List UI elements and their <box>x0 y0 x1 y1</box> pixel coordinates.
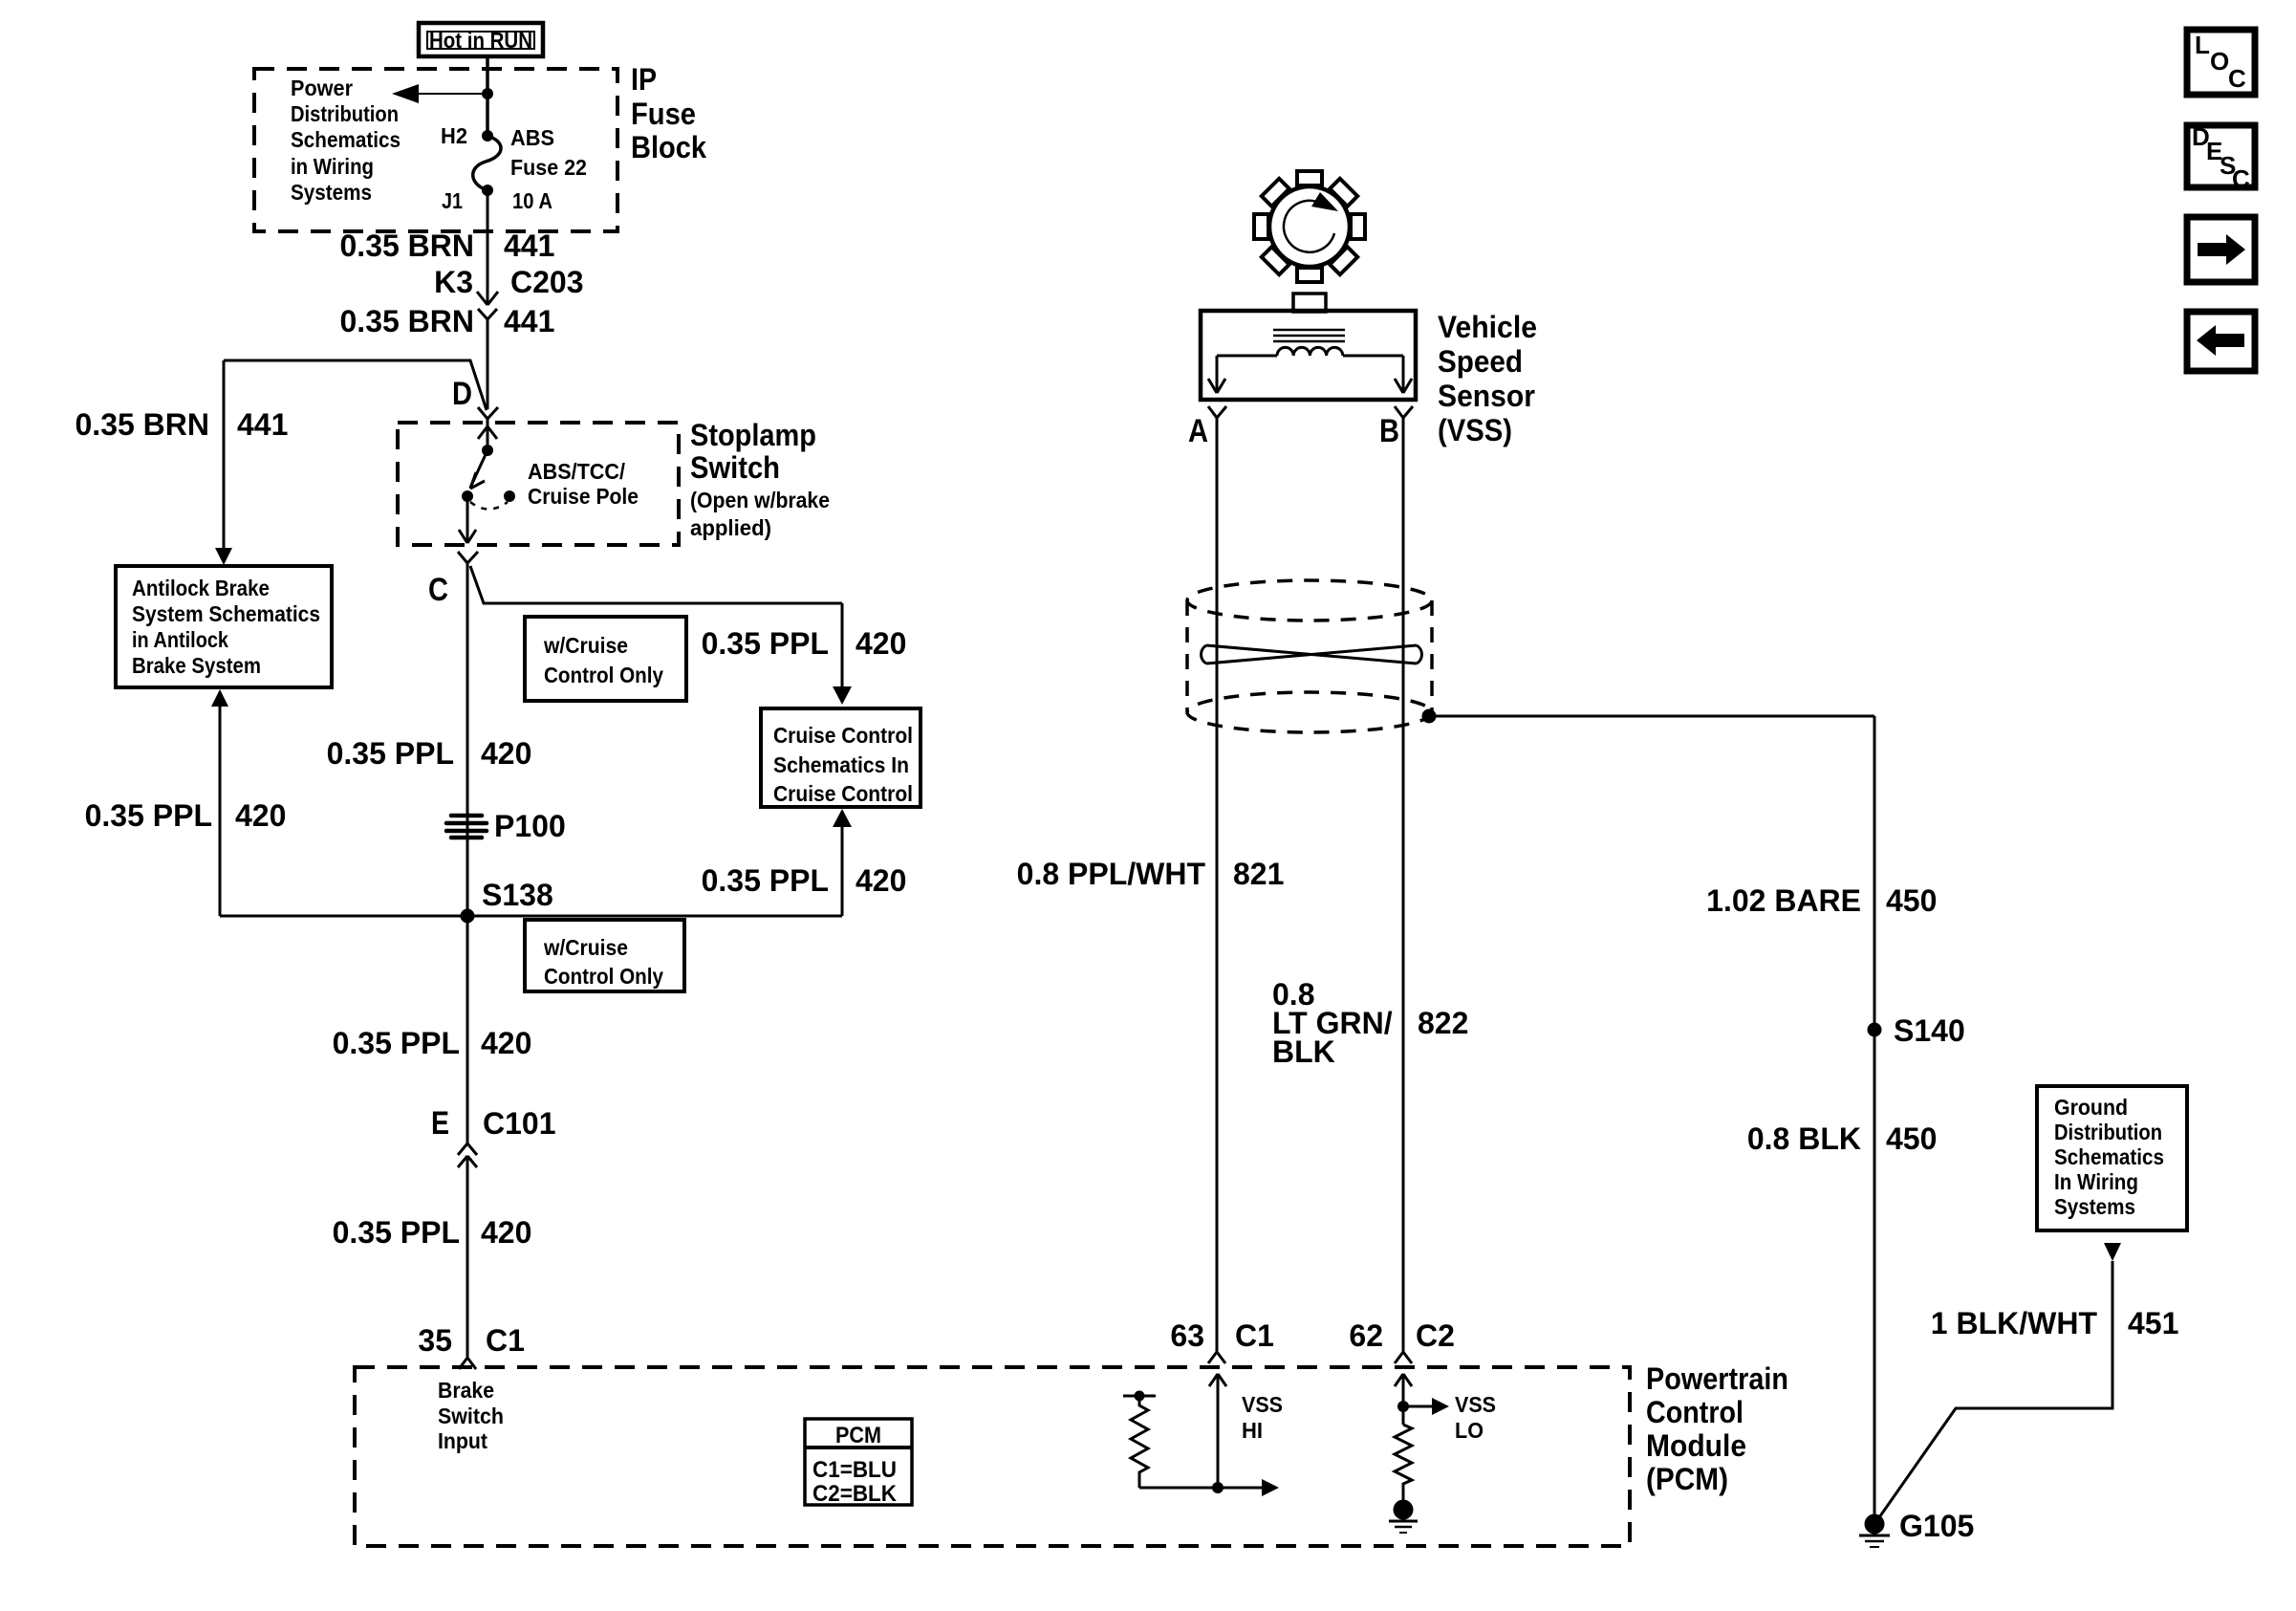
svg-text:0.35 PPL: 0.35 PPL <box>702 626 829 661</box>
svg-text:w/Cruise: w/Cruise <box>543 633 628 658</box>
wire: pin 63 arrow into PCM <box>1209 1374 1226 1488</box>
svg-text:441: 441 <box>504 304 554 338</box>
svg-text:Fuse: Fuse <box>631 97 696 131</box>
svg-text:A: A <box>1188 413 1208 449</box>
splice S138 <box>461 909 475 924</box>
label ABS Fuse 22 10 A <box>510 125 587 213</box>
connector chevron pin D <box>478 407 498 419</box>
svg-text:PCM: PCM <box>835 1423 881 1448</box>
node PCM connector legend box <box>805 1419 912 1507</box>
label 63 C1 <box>1170 1318 1274 1353</box>
label Power Distribution Schematics in Wiring Systems <box>291 76 401 205</box>
svg-text:Block: Block <box>631 130 706 164</box>
twisted pair symbol <box>1202 645 1422 664</box>
node shield drain junction <box>1422 709 1437 724</box>
svg-text:Systems: Systems <box>2054 1194 2135 1219</box>
node Hot in RUN power tag <box>419 23 543 56</box>
svg-text:System Schematics: System Schematics <box>132 601 320 626</box>
wire: S138 up into antilock box bottom <box>219 695 222 916</box>
sensor pickup coil <box>1277 347 1343 356</box>
svg-text:(Open w/brake: (Open w/brake <box>690 488 830 512</box>
label wire 0.35 PPL 420 to cruise top <box>702 626 907 661</box>
svg-text:G105: G105 <box>1899 1509 1974 1543</box>
svg-text:(PCM): (PCM) <box>1646 1462 1728 1496</box>
sensor nub <box>1293 294 1326 312</box>
Powertrain Control Module dashed box <box>355 1367 1630 1546</box>
wire: contact down to box edge with arrow <box>459 496 476 543</box>
connector C203 arrow and chevron <box>477 292 498 319</box>
svg-text:J1: J1 <box>442 188 463 213</box>
svg-text:0.8 BLK: 0.8 BLK <box>1747 1121 1861 1156</box>
svg-text:LO: LO <box>1455 1418 1484 1443</box>
rotation arrow inside gear <box>1284 192 1338 252</box>
reluctor gear wheel <box>1254 171 1365 282</box>
svg-text:Speed: Speed <box>1438 344 1523 379</box>
connector chevron pin B <box>1395 406 1413 418</box>
switch pivot dot <box>482 445 493 456</box>
svg-text:450: 450 <box>1886 883 1937 918</box>
svg-text:BLK: BLK <box>1272 1034 1335 1069</box>
svg-text:H2: H2 <box>441 123 467 148</box>
ground inside PCM <box>1389 1500 1418 1534</box>
svg-text:451: 451 <box>2128 1306 2178 1340</box>
svg-text:Power: Power <box>291 76 353 100</box>
wire: cruise branch down to cruise box <box>841 603 844 698</box>
node Antilock Brake System Schematics box <box>116 566 332 687</box>
svg-text:Antilock Brake: Antilock Brake <box>132 576 270 600</box>
wire: S138 right to cruise bottom branch <box>467 915 842 918</box>
svg-text:Control Only: Control Only <box>544 964 663 989</box>
svg-text:O: O <box>2210 47 2229 76</box>
arrow VSS LO right <box>1403 1398 1449 1415</box>
connector P100 grommet <box>446 816 487 838</box>
svg-text:Switch: Switch <box>690 450 780 485</box>
wire: pin 62 arrow into PCM <box>1395 1374 1412 1425</box>
switch contact dot <box>462 490 473 502</box>
svg-text:420: 420 <box>481 736 531 771</box>
label wire 0.35 BRN 441 left run <box>76 407 289 442</box>
label Powertrain Control Module PCM <box>1646 1361 1788 1496</box>
svg-text:C2=BLK: C2=BLK <box>812 1481 898 1507</box>
sensor core lines <box>1273 330 1345 341</box>
svg-text:Distribution: Distribution <box>291 101 399 126</box>
svg-text:Cruise Pole: Cruise Pole <box>528 484 639 509</box>
Stoplamp Switch dashed box <box>398 423 679 545</box>
wire: shield drain to right column <box>1429 715 1874 718</box>
label wire 0.35 PPL 420 above C101 <box>333 1026 532 1060</box>
svg-text:ABS/TCC/: ABS/TCC/ <box>528 459 626 484</box>
svg-text:0.35 PPL: 0.35 PPL <box>333 1026 460 1060</box>
svg-text:1 BLK/WHT: 1 BLK/WHT <box>1931 1306 2098 1340</box>
svg-text:0.8 PPL/WHT: 0.8 PPL/WHT <box>1017 857 1206 891</box>
resistor VSS HI pull <box>1123 1391 1156 1489</box>
svg-text:441: 441 <box>504 229 554 263</box>
svg-text:C101: C101 <box>483 1106 556 1141</box>
svg-text:C: C <box>2228 64 2246 93</box>
switch arrow up at pin D <box>478 419 497 450</box>
svg-text:Control: Control <box>1646 1395 1744 1429</box>
wire: VSS A down to PCM 63 <box>1216 418 1219 1352</box>
wire: branch left to power distribution <box>405 93 487 95</box>
svg-text:Distribution: Distribution <box>2054 1120 2162 1144</box>
button LOC <box>2187 30 2255 95</box>
svg-text:Fuse 22: Fuse 22 <box>510 155 587 180</box>
label wire 1 BLK/WHT 451 <box>1931 1306 2179 1340</box>
label wire 0.8 PPL/WHT 821 <box>1017 857 1285 891</box>
svg-text:420: 420 <box>481 1026 531 1060</box>
wire: S138 left to antilock branch <box>220 915 467 918</box>
button arrow right <box>2187 217 2255 282</box>
wire: pin C diagonal to cruise branch <box>470 566 842 603</box>
svg-text:Cruise Control: Cruise Control <box>773 723 913 748</box>
svg-text:441: 441 <box>237 407 288 442</box>
connector C101 double chevron <box>458 1143 477 1167</box>
svg-text:420: 420 <box>235 798 286 833</box>
svg-text:0.35 BRN: 0.35 BRN <box>76 407 210 442</box>
label wire 0.8 LT GRN/ BLK 822 <box>1272 977 1468 1069</box>
svg-text:L: L <box>2195 31 2210 59</box>
arrow into Cruise Control box top <box>833 686 852 705</box>
svg-text:0.35 PPL: 0.35 PPL <box>333 1215 460 1250</box>
svg-text:35: 35 <box>418 1323 452 1358</box>
svg-text:in Antilock: in Antilock <box>132 627 228 652</box>
arrow to Power Distribution Schematics <box>392 84 419 103</box>
splice S140 <box>1868 1023 1882 1037</box>
svg-text:62: 62 <box>1349 1318 1383 1353</box>
svg-text:Schematics In: Schematics In <box>773 752 909 777</box>
label K3 C203 <box>434 265 583 299</box>
svg-text:Powertrain: Powertrain <box>1646 1361 1788 1396</box>
wire: coil to pin B inside box <box>1343 356 1412 393</box>
svg-text:0.35 BRN: 0.35 BRN <box>340 304 475 338</box>
wire: C203 down to stoplamp switch pin D <box>487 319 489 409</box>
svg-text:420: 420 <box>856 626 906 661</box>
node w Cruise Control Only box upper <box>525 617 686 701</box>
wire: branch from pin D to left run <box>224 360 487 410</box>
svg-text:Switch: Switch <box>438 1404 504 1428</box>
label ABS/TCC/ Cruise Pole <box>528 459 639 509</box>
svg-text:Sensor: Sensor <box>1438 379 1535 413</box>
label wire 0.35 PPL 420 to cruise bottom <box>702 863 907 898</box>
svg-text:In Wiring: In Wiring <box>2054 1169 2138 1194</box>
node Cruise Control Schematics box <box>761 708 921 807</box>
node Ground Distribution Schematics box <box>2037 1086 2187 1230</box>
svg-text:Input: Input <box>438 1428 487 1453</box>
label Vehicle Speed Sensor VSS <box>1438 310 1537 447</box>
ground G105 <box>1859 1514 1890 1548</box>
svg-text:S138: S138 <box>482 878 553 912</box>
svg-text:VSS: VSS <box>1242 1392 1283 1417</box>
connector chevron pin A <box>1208 406 1226 418</box>
svg-text:C203: C203 <box>510 265 584 299</box>
label VSS LO <box>1455 1392 1496 1443</box>
svg-text:VSS: VSS <box>1455 1392 1496 1417</box>
label wire 0.35 PPL 420 above P100 <box>327 736 532 771</box>
svg-text:C1: C1 <box>486 1323 525 1358</box>
label 62 C2 <box>1349 1318 1455 1353</box>
svg-text:Ground: Ground <box>2054 1095 2128 1120</box>
svg-text:Module: Module <box>1646 1428 1746 1463</box>
connector chevron PCM pin 62 C2 <box>1395 1352 1412 1363</box>
svg-text:HI: HI <box>1242 1418 1263 1443</box>
svg-text:B: B <box>1379 413 1399 449</box>
wire: pin C straight down to S138 <box>466 563 469 916</box>
IP Fuse Block dashed box <box>254 69 617 231</box>
wire: C101 down to PCM pin 35 <box>466 1156 469 1358</box>
connector chevron pin C <box>458 552 478 563</box>
svg-text:Vehicle: Vehicle <box>1438 310 1537 344</box>
svg-text:Brake System: Brake System <box>132 653 261 678</box>
svg-text:1.02 BARE: 1.02 BARE <box>1706 883 1861 918</box>
svg-text:IP: IP <box>631 62 657 97</box>
wire: VSS B down to PCM 62 <box>1402 418 1405 1352</box>
wire: S138 down to connector C101 <box>466 916 469 1143</box>
svg-text:Control Only: Control Only <box>544 663 663 687</box>
cruise pole contact dot <box>504 490 515 502</box>
svg-text:63: 63 <box>1170 1318 1204 1353</box>
arrow into Antilock box top <box>215 548 232 565</box>
label IP Fuse Block <box>631 62 706 164</box>
fuse ABS Fuse 22 10 A <box>473 130 501 196</box>
connector chevron PCM pin 35 C1 <box>459 1358 476 1369</box>
svg-text:w/Cruise: w/Cruise <box>543 935 628 960</box>
label E C101 <box>431 1105 556 1142</box>
svg-text:420: 420 <box>481 1215 531 1250</box>
svg-text:420: 420 <box>856 863 906 898</box>
node junction to power distribution <box>482 88 493 99</box>
dashed arc to cruise pole <box>470 502 508 510</box>
svg-text:0.35 PPL: 0.35 PPL <box>327 736 454 771</box>
label wire 0.35 BRN 441 above C203 <box>340 229 555 263</box>
svg-text:K3: K3 <box>434 265 473 299</box>
label Brake Switch Input <box>438 1378 504 1453</box>
label VSS HI <box>1242 1392 1283 1443</box>
label wire 1.02 BARE 450 <box>1706 883 1937 918</box>
svg-text:10 A: 10 A <box>512 188 552 213</box>
arrow into Antilock box bottom <box>211 689 228 707</box>
wire: right column down to G105 <box>1874 716 1876 1516</box>
svg-text:822: 822 <box>1418 1006 1468 1040</box>
button DESC <box>2187 122 2255 193</box>
label Stoplamp Switch Open w brake applied <box>690 418 830 540</box>
node w Cruise Control Only box lower <box>525 920 684 991</box>
svg-text:D: D <box>452 376 472 412</box>
shield dashed cylinder <box>1187 580 1432 732</box>
svg-text:(VSS): (VSS) <box>1438 413 1512 447</box>
wire: left run down to antilock box <box>223 360 226 560</box>
svg-text:C2: C2 <box>1416 1318 1455 1353</box>
label wire 0.8 BLK 450 <box>1747 1121 1938 1156</box>
svg-text:C1: C1 <box>1235 1318 1274 1353</box>
svg-text:applied): applied) <box>690 515 771 540</box>
svg-text:0.35 BRN: 0.35 BRN <box>340 229 475 263</box>
wire: resistor to junction and arrow right <box>1139 1479 1279 1496</box>
switch blade stoplamp switch <box>470 450 487 489</box>
button arrow left <box>2187 312 2255 371</box>
svg-text:Hot in RUN: Hot in RUN <box>429 28 532 53</box>
resistor VSS LO <box>1395 1425 1412 1500</box>
node Vehicle Speed Sensor box <box>1201 311 1416 400</box>
arrow into Cruise Control box bottom <box>833 809 852 827</box>
svg-text:Brake: Brake <box>438 1378 494 1403</box>
wire: coil to pin A inside box <box>1208 356 1277 393</box>
wire: fuse J1 down to connector C203 <box>487 190 489 304</box>
node junction VSS LO <box>1397 1401 1409 1412</box>
svg-text:S140: S140 <box>1894 1013 1965 1048</box>
label wire 0.35 PPL 420 below C101 <box>333 1215 532 1250</box>
wire: Hot in RUN to fuse H2 <box>486 56 489 136</box>
svg-text:E: E <box>431 1105 449 1142</box>
label wire 0.35 PPL 420 left of S138 <box>85 798 287 833</box>
wire: up into cruise box bottom <box>841 815 844 916</box>
svg-text:0.35 PPL: 0.35 PPL <box>85 798 212 833</box>
svg-text:C: C <box>2232 164 2250 193</box>
wire: 451 run down and to G105 <box>1877 1261 2112 1520</box>
label wire 0.35 BRN 441 below C203 <box>340 304 555 338</box>
svg-text:450: 450 <box>1886 1121 1937 1156</box>
svg-text:Stoplamp: Stoplamp <box>690 418 816 452</box>
svg-text:821: 821 <box>1233 857 1284 891</box>
svg-text:C: C <box>428 572 448 608</box>
svg-text:Schematics: Schematics <box>2054 1144 2164 1169</box>
svg-text:in Wiring: in Wiring <box>291 154 374 179</box>
arrow triangle below ground distribution box <box>2104 1243 2121 1261</box>
svg-text:Systems: Systems <box>291 180 372 205</box>
svg-text:ABS: ABS <box>510 125 554 150</box>
label 35 C1 <box>418 1323 525 1358</box>
svg-text:C1=BLU: C1=BLU <box>812 1457 897 1483</box>
svg-text:Schematics: Schematics <box>291 127 401 152</box>
connector chevron PCM pin 63 C1 <box>1208 1352 1225 1363</box>
svg-text:Cruise Control: Cruise Control <box>773 781 913 806</box>
svg-text:P100: P100 <box>494 809 566 843</box>
svg-text:0.35 PPL: 0.35 PPL <box>702 863 829 898</box>
